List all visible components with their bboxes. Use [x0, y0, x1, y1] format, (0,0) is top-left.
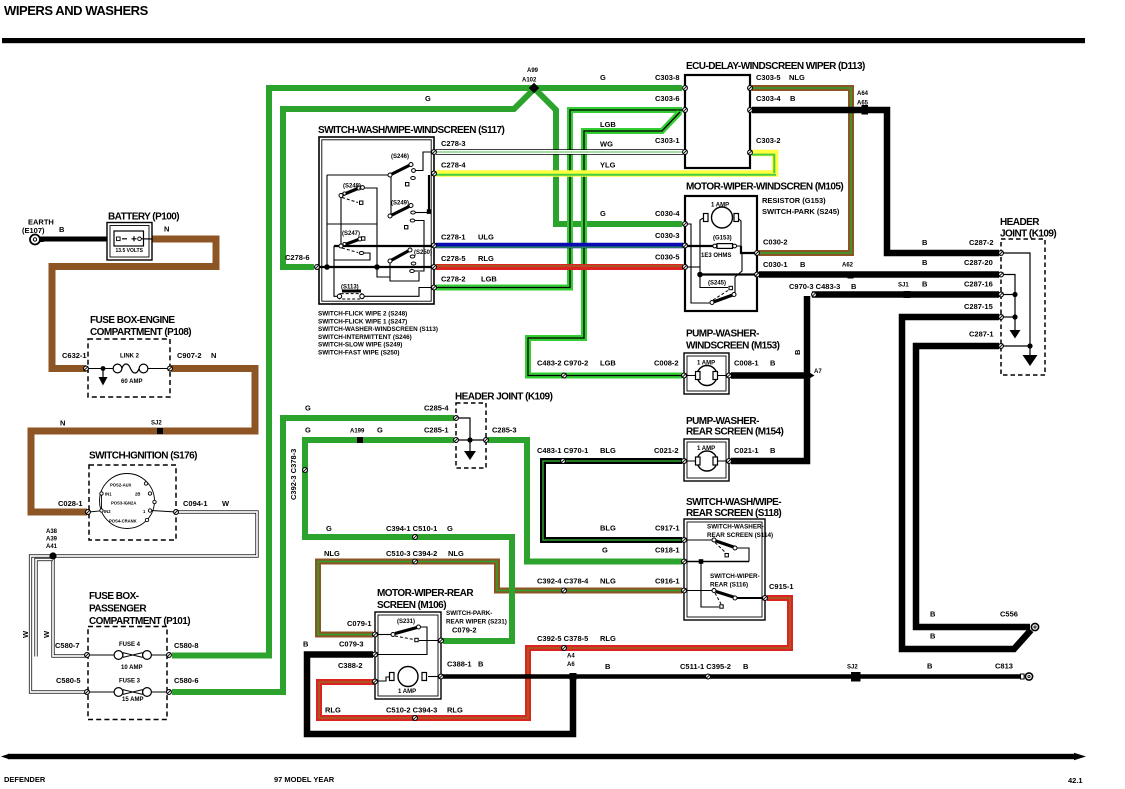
svg-text:C079-3: C079-3	[339, 640, 364, 649]
svg-text:C303-2: C303-2	[756, 136, 781, 145]
connector C632-1	[84, 366, 89, 371]
connector C915-1	[763, 596, 768, 601]
svg-text:G: G	[425, 94, 431, 103]
svg-text:(S246): (S246)	[391, 154, 409, 160]
svg-text:A99: A99	[527, 68, 539, 74]
svg-text:SWITCH-PARK-: SWITCH-PARK-	[446, 610, 492, 617]
svg-text:A62: A62	[842, 263, 854, 269]
switch S248 blade	[339, 186, 364, 205]
svg-text:RLG: RLG	[447, 706, 463, 715]
S118 switch S116 blade	[712, 589, 737, 609]
svg-text:C915-1: C915-1	[769, 582, 794, 591]
svg-text:G: G	[305, 404, 311, 413]
svg-text:LGB: LGB	[600, 120, 616, 129]
junction A62	[848, 272, 854, 279]
svg-text:B: B	[800, 260, 806, 269]
connector C278-2	[432, 285, 437, 290]
svg-text:C970-3 C483-3: C970-3 C483-3	[789, 282, 840, 291]
wire B washer pump C008-1 to A7 junction	[731, 372, 807, 379]
connector C030-2	[755, 251, 760, 256]
connector C285-3	[484, 438, 489, 443]
svg-text:(G153): (G153)	[713, 236, 732, 242]
switch S113 washer contact	[337, 290, 364, 300]
svg-text:BLG: BLG	[600, 446, 616, 455]
svg-text:G: G	[600, 209, 606, 218]
svg-text:SWITCH-FLICK WIPE 2 (S248): SWITCH-FLICK WIPE 2 (S248)	[318, 311, 407, 318]
svg-text:BLG: BLG	[600, 524, 616, 533]
svg-text:B: B	[790, 94, 796, 103]
connector C278-3	[432, 150, 437, 155]
wire B rear motor C388-1 to C813	[443, 674, 1024, 679]
svg-text:POS4-CRANK: POS4-CRANK	[109, 519, 137, 524]
svg-text:PUMP-WASHER-: PUMP-WASHER-	[686, 329, 759, 340]
S117 internal wiring	[319, 152, 434, 296]
svg-text:A41: A41	[46, 544, 58, 550]
svg-text:RESISTOR (G153): RESISTOR (G153)	[762, 196, 826, 205]
svg-text:A7: A7	[814, 369, 822, 375]
svg-text:B: B	[851, 282, 857, 291]
svg-text:C030-2: C030-2	[763, 238, 788, 247]
connector C030-3	[683, 243, 688, 248]
svg-text:42.1: 42.1	[1068, 776, 1083, 785]
M106 switch S231 blade	[391, 625, 421, 642]
svg-text:G: G	[305, 426, 311, 435]
connector ring C813	[1021, 673, 1033, 680]
svg-text:SWITCH-WASHER-: SWITCH-WASHER-	[707, 524, 764, 531]
switch S249 blade	[388, 204, 415, 229]
svg-text:BATTERY (P100): BATTERY (P100)	[108, 212, 179, 223]
svg-text:REAR SCREEN (S118): REAR SCREEN (S118)	[686, 508, 781, 519]
svg-text:C388-2: C388-2	[338, 661, 363, 670]
svg-text:SWITCH-FAST WIPE (S250): SWITCH-FAST WIPE (S250)	[318, 350, 400, 357]
junction SJ2 on C813 line	[851, 672, 861, 682]
S117 junction dots	[324, 264, 330, 270]
M153 washer pump box	[684, 353, 729, 394]
svg-text:C278-6: C278-6	[285, 253, 310, 262]
connector C079-3	[373, 652, 378, 657]
svg-text:C287-16: C287-16	[964, 280, 993, 289]
earth E107 symbol	[30, 235, 44, 245]
svg-text:N: N	[211, 351, 216, 360]
M105 switch S245	[710, 286, 736, 304]
svg-text:C580-8: C580-8	[174, 641, 199, 650]
svg-text:REAR SCREEN (M154): REAR SCREEN (M154)	[686, 427, 784, 438]
svg-text:C303-6: C303-6	[655, 94, 680, 103]
svg-text:C030-1: C030-1	[763, 260, 788, 269]
svg-text:60 AMP: 60 AMP	[121, 379, 142, 385]
svg-text:FUSE 4: FUSE 4	[119, 642, 141, 648]
connector C008-2	[682, 373, 687, 378]
connector C030-1	[755, 272, 760, 277]
svg-text:SJ2: SJ2	[847, 665, 858, 671]
svg-text:A102: A102	[522, 78, 537, 84]
svg-text:C030-5: C030-5	[655, 253, 680, 262]
svg-text:C388-1: C388-1	[447, 660, 472, 669]
svg-text:SWITCH-WASH/WIPE-: SWITCH-WASH/WIPE-	[686, 497, 781, 508]
svg-text:(E107): (E107)	[22, 226, 45, 235]
svg-text:B: B	[303, 640, 309, 649]
svg-text:(S248): (S248)	[343, 184, 361, 190]
wire RLG S117 C278-5 to M105 C030-5	[436, 264, 683, 270]
connector C483-2 C970-2	[562, 373, 567, 378]
svg-text:ULG: ULG	[478, 233, 494, 242]
svg-text:1 AMP: 1 AMP	[398, 689, 416, 695]
M106 motor symbol 1 AMP	[390, 667, 427, 687]
connector C918-1	[682, 559, 687, 564]
svg-text:C278-4: C278-4	[441, 161, 466, 170]
svg-text:C392-3 C378-3: C392-3 C378-3	[289, 449, 298, 500]
wire RLG S118 C915-1 to rear motor C388-2	[319, 598, 790, 718]
svg-text:SJ1: SJ1	[898, 283, 909, 289]
svg-text:POS2-AUX: POS2-AUX	[110, 483, 132, 488]
M106 internal wiring	[377, 627, 439, 681]
connector C303-1	[683, 150, 688, 155]
connector C303-5	[748, 86, 753, 91]
junction A199	[357, 437, 363, 443]
svg-text:COMPARTMENT (P108): COMPARTMENT (P108)	[90, 327, 191, 338]
connector C392-3 C378-3	[303, 468, 308, 473]
svg-text:C813: C813	[995, 662, 1013, 671]
svg-text:C632-1: C632-1	[62, 351, 87, 360]
svg-text:C483-2 C970-2: C483-2 C970-2	[537, 359, 588, 368]
svg-text:C278-1: C278-1	[441, 233, 466, 242]
connector C030-5	[683, 265, 688, 270]
svg-text:B: B	[743, 662, 749, 671]
svg-text:C907-2: C907-2	[177, 351, 202, 360]
connector C287-2	[999, 251, 1004, 256]
svg-text:1 AMP: 1 AMP	[697, 361, 715, 367]
svg-text:SWITCH-IGNITION (S176): SWITCH-IGNITION (S176)	[89, 451, 197, 462]
svg-text:MOTOR-WIPER-REAR: MOTOR-WIPER-REAR	[377, 588, 474, 599]
junction A4/A6	[570, 673, 577, 680]
svg-text:B: B	[793, 349, 802, 355]
connector C287-15	[999, 315, 1004, 320]
connector C916-1	[682, 588, 687, 593]
svg-text:C303-1: C303-1	[655, 136, 680, 145]
wire G branch down to M105 C030-4	[534, 88, 682, 224]
connector C303-2	[748, 150, 753, 155]
svg-text:C287-15: C287-15	[964, 302, 993, 311]
svg-text:SJ2: SJ2	[151, 421, 162, 427]
M105 motor symbol 1 AMP	[704, 207, 739, 228]
svg-text:G: G	[600, 73, 606, 82]
wire B earth to battery	[39, 237, 109, 242]
svg-text:C392-4 C378-4: C392-4 C378-4	[537, 577, 589, 586]
connector C510-3 C394-2	[413, 559, 418, 564]
wire N battery to fuse box P108	[52, 239, 216, 369]
svg-text:SWITCH-SLOW WIPE (S249): SWITCH-SLOW WIPE (S249)	[318, 342, 402, 349]
connector C285-1	[454, 438, 459, 443]
wire G branch to S117 C278-6	[283, 89, 534, 267]
junction A38/A39/A41	[49, 552, 56, 559]
link 2 fuse symbol	[86, 364, 170, 386]
svg-text:B: B	[922, 280, 928, 289]
connector C580-6	[167, 690, 172, 695]
svg-text:WINDSCREEN (M153): WINDSCREEN (M153)	[686, 341, 780, 352]
wire BLG pump C021-2 to S118 C917-1	[543, 461, 682, 540]
wire W ignition C094-1 to fuse C580-5	[31, 512, 258, 692]
wire B header joint C287-15 down to C556	[902, 317, 1031, 649]
svg-text:C285-3: C285-3	[492, 426, 517, 435]
svg-text:W: W	[222, 499, 230, 508]
svg-text:W: W	[21, 630, 30, 638]
wire WG S117 C278-3 to ECU C303-1	[436, 149, 683, 154]
svg-text:RLG: RLG	[325, 706, 341, 715]
connector C580-7	[85, 653, 90, 658]
wire G ignition: fuse C580-6 up to header joint C285-4	[172, 418, 454, 692]
connector C287-20	[999, 272, 1004, 277]
svg-text:1 AMP: 1 AMP	[711, 203, 729, 209]
svg-text:ECU-DELAY-WINDSCREEN WIPER (D1: ECU-DELAY-WINDSCREEN WIPER (D113)	[686, 61, 865, 72]
svg-text:C303-8: C303-8	[655, 73, 680, 82]
connector C580-5	[85, 690, 90, 695]
svg-text:C916-1: C916-1	[655, 577, 680, 586]
svg-text:REAR (S116): REAR (S116)	[710, 582, 748, 589]
connector C394-1 C510-1	[413, 535, 418, 540]
svg-text:NLG: NLG	[789, 73, 805, 82]
svg-text:A64: A64	[857, 91, 869, 97]
svg-text:DEFENDER: DEFENDER	[4, 775, 46, 784]
svg-text:A39: A39	[46, 537, 58, 543]
svg-text:A38: A38	[46, 529, 58, 535]
svg-text:C511-1 C395-2: C511-1 C395-2	[680, 662, 731, 671]
fuse box P108 dashed box	[88, 339, 170, 397]
connector C079-2	[439, 638, 444, 643]
svg-text:G: G	[447, 524, 453, 533]
svg-text:WG: WG	[600, 140, 613, 149]
wire N fuse box P108 to ignition switch C028-1	[31, 369, 255, 513]
svg-text:HEADER JOINT (K109): HEADER JOINT (K109)	[455, 392, 553, 403]
svg-text:A65: A65	[857, 101, 869, 107]
svg-text:REAR SCREEN (S114): REAR SCREEN (S114)	[707, 532, 773, 539]
svg-text:SWITCH-FLICK WIPE 1 (S247): SWITCH-FLICK WIPE 1 (S247)	[318, 318, 407, 325]
svg-text:15 AMP: 15 AMP	[122, 697, 143, 703]
svg-text:A6: A6	[567, 662, 575, 668]
svg-text:NLG: NLG	[600, 577, 616, 586]
wire YLG S117 C278-4 to ECU C303-2	[436, 153, 775, 174]
header joint K109 right dashed box	[1001, 239, 1045, 375]
switch S247 blade	[339, 237, 365, 255]
svg-text:G: G	[377, 426, 383, 435]
svg-text:C580-6: C580-6	[174, 676, 199, 685]
svg-text:C510-2 C394-3: C510-2 C394-3	[386, 706, 437, 715]
junction A64/A65	[862, 105, 869, 115]
M105 internal wiring	[687, 218, 755, 304]
svg-text:COMPARTMENT (P101): COMPARTMENT (P101)	[89, 616, 190, 627]
svg-text:G: G	[602, 546, 608, 555]
svg-text:MOTOR-WIPER-WINDSCREN (M105): MOTOR-WIPER-WINDSCREN (M105)	[686, 182, 843, 193]
svg-text:(S245): (S245)	[708, 281, 726, 287]
svg-text:(S247): (S247)	[342, 231, 360, 237]
ECU D113 box	[685, 75, 750, 168]
S118 switch S114 blade	[712, 538, 737, 557]
svg-text:HEADER: HEADER	[1000, 217, 1040, 228]
connector C285-4	[454, 416, 459, 421]
svg-text:(S231): (S231)	[397, 619, 415, 625]
connector C303-8	[683, 86, 688, 91]
svg-text:C287-1: C287-1	[969, 330, 994, 339]
svg-text:C287-20: C287-20	[964, 258, 993, 267]
svg-text:NLG: NLG	[324, 549, 340, 558]
connector C008-1	[727, 373, 732, 378]
svg-text:B: B	[478, 660, 484, 669]
svg-text:B: B	[770, 359, 776, 368]
svg-text:C303-5: C303-5	[756, 73, 781, 82]
connector C278-6	[315, 265, 320, 270]
svg-text:FUSE BOX-ENGINE: FUSE BOX-ENGINE	[90, 315, 175, 326]
svg-text:SWITCH-PARK (S245): SWITCH-PARK (S245)	[762, 207, 840, 216]
svg-text:C021-2: C021-2	[654, 446, 679, 455]
connector C287-16	[999, 292, 1004, 297]
svg-text:SWITCH-WASHER-WINDSCREEN (S113: SWITCH-WASHER-WINDSCREEN (S113)	[318, 326, 438, 333]
battery P100 box	[107, 223, 152, 261]
svg-text:C278-3: C278-3	[441, 139, 466, 148]
connector C388-2	[373, 679, 378, 684]
svg-text:1 AMP: 1 AMP	[697, 446, 715, 452]
junction A99/A102	[530, 84, 539, 93]
svg-text:B: B	[59, 225, 65, 234]
svg-text:13.5 VOLTS: 13.5 VOLTS	[116, 248, 144, 254]
svg-text:C510-3 C394-2: C510-3 C394-2	[386, 549, 437, 558]
svg-text:C030-4: C030-4	[655, 209, 680, 218]
svg-text:C287-2: C287-2	[969, 238, 994, 247]
connector C483-1 C970-1	[561, 459, 566, 464]
svg-text:FUSE BOX-: FUSE BOX-	[89, 591, 139, 602]
svg-text:PASSENGER: PASSENGER	[89, 604, 147, 615]
svg-text:C278-5: C278-5	[441, 254, 466, 263]
connector C278-4	[432, 171, 437, 176]
svg-text:C285-4: C285-4	[424, 404, 449, 413]
svg-text:YLG: YLG	[600, 161, 616, 170]
connector C907-2	[168, 366, 173, 371]
svg-text:C008-2: C008-2	[654, 359, 679, 368]
svg-text:W: W	[42, 630, 51, 638]
wire B header joint C287-1 down to C556	[916, 346, 1030, 627]
svg-text:C278-2: C278-2	[441, 275, 466, 284]
M154 rear washer pump box	[684, 439, 729, 481]
svg-text:C079-2: C079-2	[452, 626, 477, 635]
K109 mid internal	[456, 418, 486, 451]
wire B M105 C030-1 to header joint C287-20	[759, 271, 999, 278]
wire B C970-3/C483-3 to header joint C287-16 and down to pumps	[812, 291, 999, 298]
junction SJ1	[904, 291, 911, 298]
svg-text:10 AMP: 10 AMP	[121, 665, 142, 671]
svg-text:2B: 2B	[135, 492, 140, 497]
connector C079-1	[373, 632, 378, 637]
svg-text:G: G	[326, 524, 332, 533]
svg-text:SCREEN (M106): SCREEN (M106)	[377, 600, 446, 611]
header joint K109 mid dashed box	[456, 403, 486, 468]
svg-text:A199: A199	[350, 429, 365, 435]
wire W splice A38 down to fuse C580-7	[53, 556, 86, 656]
wire B ECU C303-4 to header joint C287-2	[752, 110, 999, 253]
svg-text:C580-5: C580-5	[56, 676, 81, 685]
S117 switch box	[319, 137, 434, 304]
connector C511-1 C395-2	[706, 674, 711, 679]
svg-text:C483-1 C970-1: C483-1 C970-1	[537, 446, 588, 455]
fuse 4 symbol	[86, 651, 169, 660]
connector C303-4	[748, 108, 753, 113]
wire NLG ECU C303-5 to M105 C030-2	[752, 88, 851, 253]
S118 internal wiring	[684, 540, 763, 607]
wire LGB S117 C278-2 to ECU C303-6	[436, 110, 682, 288]
connector C021-2	[682, 459, 687, 464]
svg-text:WIPERS AND WASHERS: WIPERS AND WASHERS	[4, 3, 149, 18]
svg-text:1E3 OHMS: 1E3 OHMS	[701, 253, 731, 259]
M105 wiper motor box	[685, 196, 757, 311]
svg-text:N: N	[164, 225, 169, 234]
svg-text:C079-1: C079-1	[347, 619, 372, 628]
connector C030-4	[683, 222, 688, 227]
connector ring C556	[1031, 623, 1038, 630]
svg-text:C303-4: C303-4	[756, 94, 781, 103]
svg-text:C392-5 C378-5: C392-5 C378-5	[537, 634, 588, 643]
wire B rear motor C079-3 loop	[307, 655, 573, 735]
svg-text:IN2: IN2	[104, 509, 111, 514]
svg-text:(S250): (S250)	[414, 250, 432, 256]
svg-text:97 MODEL YEAR: 97 MODEL YEAR	[274, 775, 335, 784]
svg-text:REAR WIPER (S231): REAR WIPER (S231)	[446, 619, 507, 626]
connector C287-1	[999, 344, 1004, 349]
svg-text:C394-1 C510-1: C394-1 C510-1	[386, 524, 437, 533]
connector C303-6	[683, 108, 688, 113]
switch S250 blade	[388, 248, 416, 273]
wire G main feed: fuse C580-8 up, across to ECU C303-8	[172, 88, 682, 656]
svg-text:B: B	[927, 662, 933, 671]
S118 rear wash/wipe switch box	[684, 519, 765, 620]
svg-text:B: B	[770, 446, 776, 455]
svg-text:SWITCH-WASH/WIPE-WINDSCREEN (S: SWITCH-WASH/WIPE-WINDSCREEN (S117)	[318, 125, 505, 136]
svg-text:C030-3: C030-3	[655, 231, 680, 240]
svg-text:SWITCH-INTERMITTENT (S246): SWITCH-INTERMITTENT (S246)	[318, 334, 412, 341]
connector C392-4 C378-4	[562, 588, 567, 593]
svg-text:B: B	[930, 610, 936, 619]
connector C917-1	[682, 538, 687, 543]
svg-text:(S249): (S249)	[391, 201, 409, 207]
junction SJ2 on N wire	[157, 428, 163, 434]
ignition switch S176 dashed box	[89, 465, 176, 540]
fuse box P101 dashed box	[88, 627, 167, 720]
connector C094-1	[174, 510, 179, 515]
wire G header joint C285-3 to S118 C918-1	[488, 440, 682, 562]
footer rule bar with arrows	[1, 754, 9, 759]
connector C388-1	[439, 674, 444, 679]
svg-text:LGB: LGB	[600, 359, 616, 368]
svg-text:C008-1: C008-1	[734, 359, 759, 368]
svg-text:SWITCH-WIPER-: SWITCH-WIPER-	[710, 573, 760, 580]
svg-text:C285-1: C285-1	[424, 426, 449, 435]
svg-text:C028-1: C028-1	[58, 499, 83, 508]
wire W third branch	[36, 560, 53, 657]
svg-text:JOINT (K109): JOINT (K109)	[1000, 229, 1056, 240]
svg-text:B: B	[922, 258, 928, 267]
svg-text:POS3-IGN2A: POS3-IGN2A	[111, 501, 136, 506]
svg-text:C021-1: C021-1	[734, 446, 759, 455]
svg-text:C094-1: C094-1	[183, 499, 208, 508]
connector C510-2 C394-3	[413, 716, 418, 721]
fuse 3 symbol	[86, 688, 169, 697]
connector C970-3 C483-3	[812, 292, 817, 297]
switch S246 blade	[388, 163, 415, 186]
wire G header joint C285-1 to rear motor C079-2	[305, 440, 512, 641]
wire NLG rear motor C079-1 to S118 C916-1	[318, 562, 682, 635]
svg-text:C917-1: C917-1	[655, 524, 680, 533]
wire ULG S117 C278-1 to M105 C030-3	[436, 243, 683, 249]
connector C278-5	[432, 265, 437, 270]
svg-text:B: B	[605, 662, 611, 671]
svg-text:B: B	[922, 238, 928, 247]
svg-text:LGB: LGB	[481, 275, 497, 284]
